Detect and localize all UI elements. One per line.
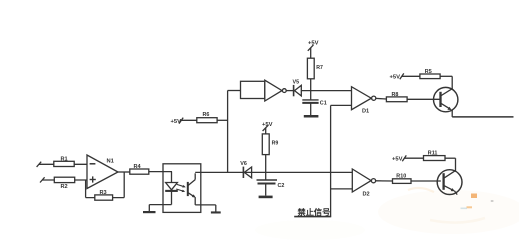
resistor R7 xyxy=(307,58,323,79)
svg-text:R7: R7 xyxy=(316,65,323,71)
resistor R9 xyxy=(262,134,278,155)
svg-text:+5V: +5V xyxy=(392,156,403,162)
resistor R8 xyxy=(386,92,407,102)
light arrows xyxy=(176,184,186,192)
ground right of optocoupler xyxy=(211,211,221,213)
svg-text:R9: R9 xyxy=(272,141,279,147)
svg-text:R4: R4 xyxy=(134,164,142,170)
gate D2 xyxy=(352,169,375,197)
wire V5 to gate D1 xyxy=(301,90,351,92)
power +5V upper right xyxy=(390,73,404,80)
wire inverter to diode V5 xyxy=(286,90,293,92)
svg-text:R10: R10 xyxy=(396,174,406,180)
ground left of optocoupler xyxy=(143,211,156,213)
svg-text:R2: R2 xyxy=(61,184,68,190)
svg-text:N1: N1 xyxy=(107,159,115,165)
wire R6 to node xyxy=(217,119,228,121)
inverter U3 xyxy=(265,80,286,101)
wire phototransistor collector line (node) xyxy=(195,171,352,173)
svg-text:V5: V5 xyxy=(293,79,300,85)
wire D1 output xyxy=(376,97,387,100)
wire vertical node to top branch xyxy=(227,91,229,173)
transistor V2 xyxy=(437,170,462,195)
LED in optocoupler xyxy=(165,172,178,205)
wire R8 to V1 base xyxy=(407,98,440,100)
power +5V pull-up xyxy=(171,118,184,126)
svg-text:R11: R11 xyxy=(428,150,438,156)
svg-text:R6: R6 xyxy=(203,112,210,118)
resistor R3 xyxy=(95,190,113,200)
svg-text:V6: V6 xyxy=(240,161,247,167)
wire R4 to optocoupler xyxy=(149,171,172,173)
wire R10 to V2 base xyxy=(411,180,441,182)
svg-text:C2: C2 xyxy=(278,183,285,189)
wire R11 to V2 collector xyxy=(445,158,456,171)
wire D2 output xyxy=(376,180,393,182)
capacitor C2 xyxy=(257,172,285,188)
ground under C1 xyxy=(304,115,319,118)
svg-text:禁止信号: 禁止信号 xyxy=(297,207,331,217)
wire R9 to node xyxy=(265,155,267,173)
wire R5 to V1 collector xyxy=(440,76,452,89)
wire +5V to R5 xyxy=(402,75,420,77)
net 禁止信号 (inhibit signal) xyxy=(294,105,331,217)
svg-text:D2: D2 xyxy=(363,191,370,197)
resistor R1 xyxy=(54,157,74,167)
wire D2 lower input xyxy=(331,188,353,190)
svg-text:R1: R1 xyxy=(61,157,68,163)
background watermark xyxy=(255,188,519,240)
capacitor C1 xyxy=(302,91,326,107)
svg-text:D1: D1 xyxy=(362,109,369,115)
svg-text:R3: R3 xyxy=(100,190,107,196)
wire LED cathode to ground xyxy=(149,205,171,211)
wire R7 to node xyxy=(310,79,312,91)
wire emitter to ground xyxy=(195,197,216,211)
diode V5 xyxy=(293,79,302,96)
power +5V middle xyxy=(262,122,273,131)
ground under C2 xyxy=(259,196,273,199)
wire +5V to R9 xyxy=(265,128,267,134)
resistor R11 xyxy=(424,150,446,160)
wire node to monostable xyxy=(228,90,241,92)
resistor R2 xyxy=(54,177,74,190)
power +5V lower right xyxy=(392,155,406,162)
svg-text:+5V: +5V xyxy=(390,74,401,80)
wire V1 emitter out xyxy=(452,110,513,117)
resistor R10 xyxy=(393,174,412,184)
wire input 1 xyxy=(37,162,87,167)
resistor R5 xyxy=(420,69,440,79)
wire op-amp output xyxy=(118,171,130,173)
wire +5V to R7 xyxy=(310,48,312,59)
op-amp N1 xyxy=(87,155,118,189)
power +5V top xyxy=(308,40,319,51)
optocoupler box U1 xyxy=(163,164,201,213)
wire input 2 xyxy=(40,177,87,182)
gate D1 xyxy=(352,87,376,115)
resistor R6 xyxy=(197,112,217,123)
wire C1 to ground xyxy=(310,103,312,115)
svg-text:C1: C1 xyxy=(320,101,327,107)
monostable box U2 xyxy=(241,81,265,98)
phototransistor xyxy=(188,173,196,197)
wire D1 lower input xyxy=(331,104,352,106)
svg-text:R5: R5 xyxy=(425,69,432,75)
wire +5V to R11 xyxy=(404,157,423,159)
svg-text:R8: R8 xyxy=(392,92,399,98)
wire V2 emitter stub xyxy=(454,191,457,195)
resistor R4 xyxy=(130,164,149,174)
wire C2 to ground xyxy=(265,184,267,196)
wire +5V to R6 xyxy=(180,119,197,121)
transistor V1 xyxy=(434,87,458,111)
wire feedback loop xyxy=(86,172,125,198)
diode V6 xyxy=(240,161,251,178)
